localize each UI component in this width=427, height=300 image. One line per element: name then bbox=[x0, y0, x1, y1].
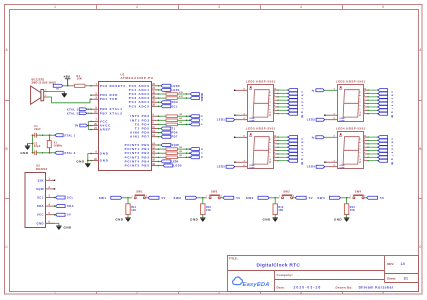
svg-text:10K: 10K bbox=[206, 209, 211, 212]
svg-text:PD0 RXD: PD0 RXD bbox=[100, 93, 118, 97]
svg-text:2: 2 bbox=[364, 109, 365, 111]
svg-text:PC4 ADC4: PC4 ADC4 bbox=[129, 100, 150, 104]
svg-text:COM: COM bbox=[339, 120, 344, 122]
svg-text:X1: X1 bbox=[54, 141, 58, 144]
svg-text:10: 10 bbox=[364, 135, 366, 137]
svg-text:GND: GND bbox=[115, 217, 124, 221]
svg-text:2: 2 bbox=[136, 291, 138, 295]
svg-text:PC0 ADC0: PC0 ADC0 bbox=[129, 84, 150, 88]
svg-text:COM: COM bbox=[339, 167, 344, 169]
svg-text:2: 2 bbox=[364, 156, 365, 158]
svg-text:SW2: SW2 bbox=[174, 196, 182, 200]
svg-text:-: - bbox=[298, 273, 299, 277]
svg-text:9: 9 bbox=[274, 92, 275, 94]
svg-text:GND: GND bbox=[263, 217, 272, 221]
svg-text:BUZZER1: BUZZER1 bbox=[32, 79, 45, 82]
svg-text:PCINT5 PB5: PCINT5 PB5 bbox=[125, 164, 150, 168]
svg-text:AVCC: AVCC bbox=[100, 124, 111, 128]
svg-text:PCINT1 PB1: PCINT1 PB1 bbox=[125, 147, 150, 151]
svg-text:DP: DP bbox=[339, 136, 343, 138]
svg-text:1: 1 bbox=[206, 196, 207, 198]
svg-text:2: 2 bbox=[146, 196, 147, 198]
svg-text:PCINT3 PB3: PCINT3 PB3 bbox=[125, 155, 150, 159]
svg-text:5: 5 bbox=[382, 5, 384, 9]
svg-text:100: 100 bbox=[179, 114, 182, 116]
svg-text:COM: COM bbox=[249, 118, 254, 120]
svg-text:10: 10 bbox=[274, 88, 276, 90]
svg-text:SW1: SW1 bbox=[99, 196, 107, 200]
svg-text:COM: COM bbox=[339, 165, 344, 167]
svg-text:1: 1 bbox=[54, 291, 56, 295]
svg-text:Company:: Company: bbox=[277, 273, 294, 277]
svg-text:AIN0 PD6: AIN0 PD6 bbox=[130, 131, 150, 135]
svg-text:AIN1 PD7: AIN1 PD7 bbox=[130, 135, 150, 139]
svg-text:INT0 PD2: INT0 PD2 bbox=[130, 114, 150, 118]
svg-text:C1: C1 bbox=[34, 125, 38, 128]
svg-text:GND: GND bbox=[76, 160, 85, 164]
svg-text:8: 8 bbox=[274, 95, 275, 97]
svg-text:100: 100 bbox=[179, 118, 182, 120]
svg-text:DP: DP bbox=[339, 89, 343, 91]
svg-text:PD1 TXD: PD1 TXD bbox=[100, 97, 118, 101]
svg-text:5: 5 bbox=[274, 102, 275, 104]
svg-text:1.0: 1.0 bbox=[401, 262, 406, 266]
svg-text:1/1: 1/1 bbox=[404, 276, 409, 280]
svg-text:PC6 RESET#: PC6 RESET# bbox=[100, 84, 126, 88]
svg-text:SW3: SW3 bbox=[246, 196, 254, 200]
svg-text:3: 3 bbox=[218, 5, 220, 9]
svg-text:5: 5 bbox=[364, 102, 365, 104]
svg-text:COM: COM bbox=[339, 118, 344, 120]
svg-text:2: 2 bbox=[221, 196, 222, 198]
svg-text:GND: GND bbox=[100, 151, 109, 155]
svg-text:C2: C2 bbox=[34, 142, 38, 145]
svg-text:8: 8 bbox=[364, 142, 365, 144]
svg-text:PB6 XTAL1: PB6 XTAL1 bbox=[100, 107, 123, 111]
svg-text:2: 2 bbox=[274, 109, 275, 111]
svg-text:PC1 ADC1: PC1 ADC1 bbox=[129, 88, 150, 92]
svg-text:T1 PD5: T1 PD5 bbox=[135, 127, 150, 131]
svg-text:GND: GND bbox=[100, 159, 109, 163]
svg-text:9: 9 bbox=[364, 92, 365, 94]
svg-text:8: 8 bbox=[274, 142, 275, 144]
svg-text:REV:: REV: bbox=[387, 262, 394, 266]
svg-text:Date:: Date: bbox=[277, 285, 286, 289]
svg-text:COM: COM bbox=[249, 165, 254, 167]
svg-text:9: 9 bbox=[274, 139, 275, 141]
svg-text:PC3 ADC3: PC3 ADC3 bbox=[129, 96, 150, 100]
svg-text:10K: 10K bbox=[77, 78, 83, 81]
svg-text:2: 2 bbox=[274, 156, 275, 158]
svg-text:PCINT0 PB0: PCINT0 PB0 bbox=[125, 143, 150, 147]
svg-text:2020-03-26: 2020-03-26 bbox=[294, 285, 322, 289]
svg-text:Sheet:: Sheet: bbox=[387, 276, 396, 280]
svg-text:2: 2 bbox=[136, 5, 138, 9]
svg-text:100: 100 bbox=[179, 122, 182, 124]
svg-text:R13: R13 bbox=[350, 206, 356, 209]
svg-text:R10: R10 bbox=[206, 206, 212, 209]
svg-text:10K: 10K bbox=[350, 209, 355, 212]
svg-text:SW4: SW4 bbox=[317, 196, 325, 200]
svg-text:8: 8 bbox=[364, 95, 365, 97]
svg-text:ATMEGA328P-PU: ATMEGA328P-PU bbox=[121, 76, 154, 80]
svg-text:COM: COM bbox=[249, 167, 254, 169]
svg-text:5: 5 bbox=[364, 149, 365, 151]
svg-text:1: 1 bbox=[274, 112, 275, 114]
svg-text:1: 1 bbox=[274, 159, 275, 161]
svg-text:7: 7 bbox=[274, 98, 275, 100]
svg-text:SCL: SCL bbox=[200, 97, 202, 102]
svg-text:7: 7 bbox=[364, 145, 365, 147]
svg-text:COM: COM bbox=[249, 120, 254, 122]
svg-text:7: 7 bbox=[274, 145, 275, 147]
svg-text:VCC: VCC bbox=[100, 119, 109, 123]
svg-text:R1: R1 bbox=[77, 75, 81, 78]
svg-text:PC2 ADC2: PC2 ADC2 bbox=[129, 92, 150, 96]
svg-text:1: 1 bbox=[364, 159, 365, 161]
svg-text:10: 10 bbox=[274, 135, 276, 137]
svg-text:10K: 10K bbox=[131, 209, 136, 212]
svg-text:22pF: 22pF bbox=[34, 128, 41, 131]
svg-text:DP: DP bbox=[249, 136, 253, 138]
svg-text:AREF: AREF bbox=[100, 128, 111, 132]
svg-text:9: 9 bbox=[364, 139, 365, 141]
svg-text:R12: R12 bbox=[278, 206, 284, 209]
svg-text:5: 5 bbox=[274, 149, 275, 151]
svg-text:100: 100 bbox=[179, 155, 182, 157]
svg-text:1: 1 bbox=[132, 196, 133, 198]
svg-text:DigitalClock RTC: DigitalClock RTC bbox=[257, 262, 301, 268]
svg-text:GND: GND bbox=[20, 151, 29, 155]
svg-text:100: 100 bbox=[179, 151, 182, 153]
svg-text:2: 2 bbox=[293, 196, 294, 198]
svg-text:2: 2 bbox=[364, 196, 365, 198]
svg-text:100: 100 bbox=[179, 147, 182, 149]
svg-text:1: 1 bbox=[279, 196, 280, 198]
svg-text:Drawn By:: Drawn By: bbox=[336, 285, 353, 289]
svg-text:R11: R11 bbox=[131, 206, 136, 209]
svg-text:4: 4 bbox=[300, 5, 302, 9]
svg-text:3: 3 bbox=[218, 291, 220, 295]
svg-text:1: 1 bbox=[364, 112, 365, 114]
svg-text:SMD-121185-16025: SMD-121185-16025 bbox=[32, 81, 57, 84]
svg-text:GND: GND bbox=[334, 217, 343, 221]
svg-text:10: 10 bbox=[364, 88, 366, 90]
svg-text:PCINT4 PB4: PCINT4 PB4 bbox=[125, 159, 150, 163]
svg-text:PB7 XTAL2: PB7 XTAL2 bbox=[100, 111, 123, 115]
svg-text:1: 1 bbox=[54, 5, 56, 9]
svg-text:TITLE:: TITLE: bbox=[229, 256, 238, 260]
svg-text:GND: GND bbox=[190, 217, 199, 221]
svg-text:GND: GND bbox=[64, 226, 73, 230]
svg-text:T0 PD4: T0 PD4 bbox=[135, 122, 150, 126]
svg-text:INT1 PD3: INT1 PD3 bbox=[130, 118, 150, 122]
svg-text:7: 7 bbox=[364, 98, 365, 100]
svg-text:5V: 5V bbox=[75, 124, 79, 128]
svg-text:EasyEDA: EasyEDA bbox=[243, 282, 270, 288]
svg-text:PC5 ADC5: PC5 ADC5 bbox=[129, 104, 150, 108]
svg-text:PCINT2 PB2: PCINT2 PB2 bbox=[125, 151, 150, 155]
svg-text:DP: DP bbox=[249, 89, 253, 91]
svg-text:Shivam Kurzekar: Shivam Kurzekar bbox=[359, 285, 394, 289]
svg-text:1: 1 bbox=[350, 196, 351, 198]
svg-text:16MHz: 16MHz bbox=[54, 144, 64, 147]
svg-text:22pF: 22pF bbox=[34, 145, 41, 148]
svg-text:10K: 10K bbox=[278, 209, 283, 212]
